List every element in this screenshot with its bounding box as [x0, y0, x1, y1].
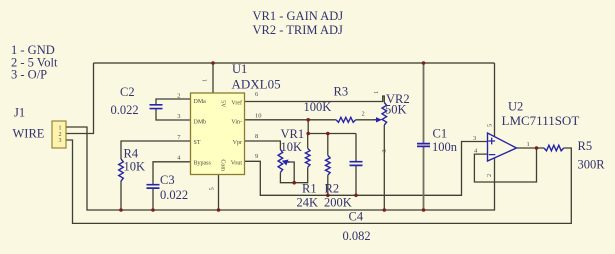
- svg-text:VR1: VR1: [281, 127, 305, 141]
- svg-text:C4: C4: [349, 210, 364, 224]
- svg-text:R2: R2: [325, 182, 340, 196]
- svg-text:R3: R3: [334, 85, 349, 99]
- svg-text:R5: R5: [578, 139, 593, 153]
- svg-text:5: 5: [209, 187, 216, 190]
- svg-text:1: 1: [202, 79, 209, 82]
- svg-text:Com: Com: [220, 159, 226, 171]
- svg-text:300R: 300R: [578, 158, 606, 172]
- svg-text:3: 3: [473, 135, 476, 142]
- svg-text:U2: U2: [508, 99, 523, 113]
- svg-text:10K: 10K: [124, 159, 146, 173]
- svg-text:0.082: 0.082: [343, 229, 371, 243]
- svg-text:Vref: Vref: [231, 100, 242, 107]
- svg-text:1: 1: [527, 141, 530, 148]
- svg-text:2: 2: [362, 111, 365, 118]
- svg-text:1: 1: [373, 91, 380, 94]
- svg-text:100K: 100K: [304, 100, 332, 114]
- svg-text:DMb: DMb: [194, 120, 207, 126]
- svg-text:3 - O/P: 3 - O/P: [11, 68, 47, 82]
- svg-text:Vpr: Vpr: [233, 140, 242, 146]
- svg-text:Vout: Vout: [231, 160, 243, 166]
- svg-text:Vin-: Vin-: [231, 120, 242, 126]
- svg-text:C3: C3: [160, 173, 175, 187]
- svg-text:3: 3: [59, 138, 62, 144]
- svg-text:ST: ST: [194, 140, 201, 146]
- svg-text:5V: 5V: [220, 100, 226, 108]
- svg-text:Bypass: Bypass: [194, 160, 212, 166]
- svg-text:200K: 200K: [324, 195, 352, 209]
- svg-text:C1: C1: [433, 126, 448, 140]
- svg-text:1: 1: [59, 126, 62, 132]
- svg-text:WIRE: WIRE: [13, 127, 45, 141]
- svg-text:DMa: DMa: [194, 99, 207, 105]
- svg-text:3: 3: [177, 113, 180, 120]
- svg-text:VR2 - TRIM ADJ: VR2 - TRIM ADJ: [253, 23, 344, 37]
- svg-text:U1: U1: [232, 62, 247, 76]
- svg-text:0.022: 0.022: [160, 188, 188, 202]
- svg-text:LMC7111SOT: LMC7111SOT: [502, 113, 580, 128]
- svg-text:8: 8: [255, 133, 258, 140]
- svg-text:2: 2: [177, 92, 180, 99]
- svg-text:R1: R1: [302, 182, 317, 196]
- svg-text:9: 9: [255, 153, 258, 160]
- svg-text:VR1 - GAIN ADJ: VR1 - GAIN ADJ: [253, 9, 344, 23]
- svg-text:3: 3: [381, 149, 388, 152]
- svg-text:100n: 100n: [432, 140, 458, 154]
- svg-text:50K: 50K: [385, 103, 407, 117]
- svg-text:0.022: 0.022: [111, 103, 139, 117]
- svg-text:10: 10: [255, 113, 262, 120]
- svg-text:10K: 10K: [281, 140, 303, 154]
- svg-text:5: 5: [487, 124, 494, 127]
- svg-text:ADXL05: ADXL05: [232, 77, 281, 92]
- svg-text:24K: 24K: [297, 195, 319, 209]
- svg-text:C2: C2: [120, 85, 135, 99]
- svg-text:J1: J1: [14, 106, 25, 120]
- svg-text:2: 2: [486, 174, 493, 177]
